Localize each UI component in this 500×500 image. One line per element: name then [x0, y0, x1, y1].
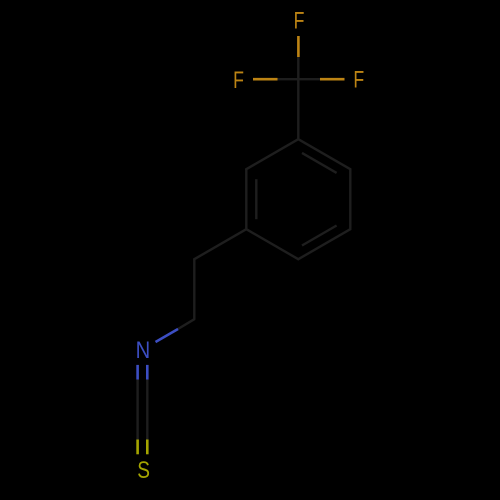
bond C=S double (S half) — [136, 440, 139, 455]
svg-text:F: F — [353, 67, 364, 94]
bond C-F left (F half) — [253, 78, 278, 81]
ring edge v3-v4 — [298, 229, 350, 259]
svg-text:S: S — [137, 457, 150, 484]
bond CH2b-N (carbon half) — [178, 319, 194, 329]
ring edge v5-v6 inner double — [255, 179, 257, 219]
bond CH2b-N (N half) — [156, 329, 179, 342]
svg-text:N: N — [136, 337, 151, 364]
ring edge v5-v6 — [245, 169, 247, 229]
ring edge v4-v5 — [246, 229, 298, 259]
svg-text:F: F — [233, 67, 244, 94]
bond CF3-ring — [297, 79, 299, 139]
ring edge v2-v3 — [349, 169, 351, 229]
bond C-F left (carbon half) — [278, 78, 299, 80]
svg-text:F: F — [294, 8, 305, 35]
ring edge v1-v2 — [298, 139, 350, 169]
bond C-F top (carbon half) — [297, 57, 299, 79]
bond CH2a-CH2b — [193, 259, 195, 319]
ring edge v1-v2 inner double — [302, 153, 337, 173]
bond N=C double (N half) — [136, 365, 139, 380]
bond C-F right (carbon half) — [298, 78, 320, 80]
bond C-F right (F half) — [320, 78, 345, 81]
ring edge v6-v1 — [246, 139, 298, 169]
ring edge v3-v4 inner double — [302, 226, 337, 246]
bond N=C / C=S (carbon halves) — [136, 380, 138, 440]
bond ring-CH2a — [194, 229, 246, 259]
bond C-F top (F half) — [297, 36, 300, 57]
